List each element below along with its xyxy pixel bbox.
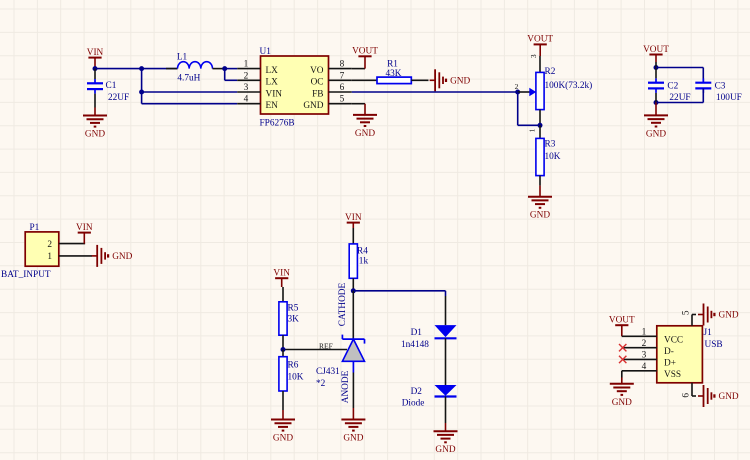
svg-text:R3: R3 [545,140,556,150]
svg-text:C2: C2 [667,82,678,92]
inductor L1 [166,53,225,84]
wire C3 branch top [656,68,703,83]
svg-text:LX: LX [266,78,279,88]
wire VIN branch down [141,69,143,104]
svg-text:GND: GND [343,434,363,444]
wire to U1 pin3 [142,91,238,93]
power port VIN at P1 [76,223,93,244]
svg-text:GND: GND [450,77,470,87]
svg-text:2: 2 [515,82,519,91]
junction node LX [222,66,227,71]
wire L1 to pin2 [225,69,238,81]
svg-text:100UF: 100UF [716,93,742,103]
junction node C2 top [654,65,659,70]
svg-text:1: 1 [47,252,52,262]
diode D1 1n4148 [401,296,457,350]
pin number 3 of R2 [529,54,538,58]
svg-text:VIN: VIN [266,89,283,99]
svg-text:VIN: VIN [273,269,290,279]
svg-text:USB: USB [705,340,723,350]
svg-text:3: 3 [642,351,647,361]
ground GND under C2 [644,103,668,140]
pin 6 of J1 [682,383,696,398]
svg-text:4.7uH: 4.7uH [177,74,200,84]
no-connect X marks on D-/D+ [619,344,626,363]
wire D2 to GND [445,397,447,424]
resistor R6 10K [279,350,304,411]
svg-text:2: 2 [244,71,249,81]
wire REF [283,349,347,351]
svg-text:L1: L1 [177,53,188,63]
svg-text:R4: R4 [357,246,368,256]
wire C3 branch bottom [656,88,703,102]
svg-text:GND: GND [435,445,455,455]
svg-text:GND: GND [85,130,105,140]
svg-text:FB: FB [312,89,323,99]
ground GND under CJ431 [341,408,365,444]
power port VIN at R5 [273,269,290,288]
svg-text:U1: U1 [260,47,272,57]
ground GND under C1 [83,108,107,140]
ground GND under R6 [271,410,295,444]
junction node REF divider [281,347,286,352]
wire FB net [352,91,518,93]
svg-text:CJ431: CJ431 [316,367,340,377]
power port VOUT at R2 [527,35,553,56]
ground GND under J1 pin4 [610,378,634,408]
svg-text:43K: 43K [385,69,401,79]
svg-text:GND: GND [719,392,739,402]
svg-text:VIN: VIN [345,213,362,223]
svg-text:*2: *2 [316,379,326,389]
wire FB to R2 bottom [518,92,540,125]
wiper arrow into R2 [518,88,537,97]
svg-text:OC: OC [311,78,324,88]
svg-text:3K: 3K [288,315,300,325]
svg-text:FP6276B: FP6276B [260,119,295,129]
pin number 2 of R2 [515,82,519,91]
svg-text:VIN: VIN [76,223,93,233]
power ground GND at J1 pin5 [698,304,739,326]
svg-text:10K: 10K [288,373,304,383]
svg-text:8: 8 [340,60,345,70]
pin name CATHODE [338,282,348,326]
svg-text:ANODE: ANODE [341,370,351,403]
power port VOUT at U1 pin8 [352,47,378,69]
svg-text:VOUT: VOUT [643,45,669,55]
svg-text:6: 6 [340,83,345,93]
svg-text:LX: LX [266,66,279,76]
svg-text:D2: D2 [411,387,423,397]
svg-text:EN: EN [266,101,279,111]
svg-text:VOUT: VOUT [352,47,378,57]
svg-text:1k: 1k [359,256,369,266]
power ground GND at P1 pin1 [92,245,133,267]
svg-text:GND: GND [719,311,739,321]
svg-text:3: 3 [244,83,249,93]
svg-text:VSS: VSS [664,370,681,380]
wire to U1 pin4 [142,103,238,105]
wire cathode to D1 [353,291,445,296]
power ground GND right of R1 [430,69,471,91]
capacitor C1 [87,69,129,108]
junction node cathode [351,288,356,293]
svg-text:J1: J1 [704,328,713,338]
svg-text:1: 1 [642,328,647,338]
resistor R3 10K [536,125,561,185]
svg-text:D1: D1 [411,328,423,338]
connector J1 USB [622,326,723,383]
wire D1 to D2 [445,338,447,385]
svg-text:GND: GND [530,211,550,221]
power port VIN at R4 [345,213,362,228]
svg-text:P1: P1 [30,223,40,233]
resistor R2 100K potentiometer [536,56,592,125]
power port VOUT at J1 [609,316,635,337]
svg-text:5: 5 [340,95,345,105]
svg-text:BAT_INPUT: BAT_INPUT [1,270,51,280]
wire cathode down [352,291,354,339]
svg-text:Diode: Diode [402,399,425,409]
svg-text:VOUT: VOUT [609,316,635,326]
power ground GND at J1 pin6 [698,385,739,407]
junction node C2 bottom [654,100,659,105]
svg-text:6: 6 [682,393,692,398]
svg-text:22UF: 22UF [108,93,129,103]
svg-text:VO: VO [310,66,324,76]
svg-text:1: 1 [244,60,249,70]
capacitor C3 [695,78,742,103]
connector P1 BAT_INPUT [1,223,92,280]
power port VOUT at C2 [643,45,669,62]
svg-text:4: 4 [642,362,647,372]
svg-text:GND: GND [273,434,293,444]
svg-text:R5: R5 [288,303,299,313]
svg-text:R6: R6 [288,360,299,370]
svg-text:C3: C3 [715,82,726,92]
diode D2 [402,385,457,409]
resistor R1 43K [352,60,429,84]
svg-text:4: 4 [244,95,249,105]
svg-text:1n4148: 1n4148 [401,340,429,350]
svg-text:7: 7 [340,71,345,81]
svg-text:D-: D- [664,347,674,357]
svg-text:5: 5 [682,310,692,315]
junction node FB [515,90,520,95]
svg-text:GND: GND [612,398,632,408]
svg-text:D+: D+ [664,359,676,369]
power port VIN (input rail) [87,48,104,68]
svg-text:CATHODE: CATHODE [338,282,348,326]
ground GND under D2 [434,423,458,455]
pin 5 of J1 [682,310,696,326]
svg-text:GND: GND [112,252,132,262]
svg-text:VCC: VCC [664,336,683,346]
wire VIN rail to L1 [95,68,178,70]
wire J1 pin4 down [621,371,623,378]
pin number 1 of R2 [528,128,537,132]
svg-text:R2: R2 [545,67,556,77]
ground GND under R3 [528,186,552,221]
svg-text:GND: GND [303,101,323,111]
svg-text:3: 3 [529,54,538,58]
junction node pin3 branch [139,90,144,95]
svg-text:2: 2 [642,339,647,349]
capacitor C2 [648,62,691,103]
transistor CJ431 shunt regulator [316,335,365,390]
svg-text:VOUT: VOUT [527,35,553,45]
op-amp U1 FP6276B boost converter [237,47,352,128]
resistor R5 3K [279,287,299,350]
junction node R2/R3 [538,123,543,128]
ground GND under U1 pin5 [352,104,377,139]
junction node to U1 VIN/EN [139,66,144,71]
svg-text:10K: 10K [545,152,561,162]
pin name ANODE [341,370,351,403]
svg-text:VIN: VIN [87,48,104,58]
svg-text:22UF: 22UF [669,93,690,103]
svg-text:1: 1 [528,128,537,132]
pin name REF [319,341,333,350]
svg-text:GND: GND [355,129,375,139]
svg-text:100K(73.2k): 100K(73.2k) [545,80,593,91]
svg-text:2: 2 [47,240,52,250]
junction node VIN/C1 [93,66,98,71]
svg-text:GND: GND [646,129,666,139]
wire anode down [352,373,354,409]
resistor R4 1k [349,228,368,291]
wire L1 to pin1 [225,68,238,70]
svg-text:C1: C1 [106,81,117,91]
